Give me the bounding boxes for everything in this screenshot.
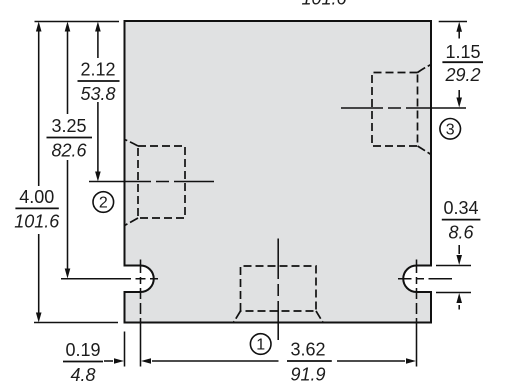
svg-text:4.8: 4.8: [70, 365, 95, 385]
dimension 1.15/29.2 line: [458, 30, 460, 100]
dimension 0.19/4.8 arrow: [104, 360, 113, 362]
dimension 2.12/53.8 line: [97, 30, 99, 173]
extension line right notch bottom: [436, 292, 471, 294]
balloon 1: [250, 334, 271, 355]
left notch vertical centerline and extension to dimension: [140, 260, 142, 367]
cutout 3 horizontal centerline: [341, 107, 466, 109]
svg-text:53.8: 53.8: [80, 84, 115, 104]
svg-text:3.25: 3.25: [51, 116, 86, 136]
cutout 1 vertical centerline: [277, 239, 279, 341]
cutout 1 chamfer dash left: [234, 311, 241, 323]
svg-text:82.6: 82.6: [51, 141, 87, 161]
svg-text:1.15: 1.15: [445, 42, 480, 62]
cutout 2 chamfer dash top: [125, 140, 139, 147]
dimension 0.34/8.6 arrows: [458, 245, 460, 254]
svg-text:91.9: 91.9: [290, 365, 325, 385]
dimension 3.25/82.6 line: [67, 30, 69, 270]
svg-text:2: 2: [99, 195, 108, 212]
svg-text:4.00: 4.00: [19, 187, 54, 207]
right notch horizontal centerline: [398, 278, 452, 280]
extension line top left: [35, 21, 120, 23]
svg-text:101.6: 101.6: [14, 211, 60, 231]
extension line bottom left of plate bottom edge: [34, 322, 118, 324]
hidden cutout 2 (left): [138, 146, 185, 218]
svg-text:8.6: 8.6: [448, 223, 474, 243]
svg-text:29.2: 29.2: [444, 65, 480, 85]
extension line right notch top: [436, 265, 471, 267]
balloon 3: [440, 119, 461, 140]
balloon 2: [93, 192, 114, 213]
cutout 1 chamfer dash right: [316, 311, 323, 323]
svg-text:3.62: 3.62: [290, 340, 325, 360]
plate body with keyhole notches: [125, 21, 432, 323]
extension line top right: [439, 21, 467, 23]
right notch vertical centerline and extension to dimension: [416, 260, 418, 367]
hidden cutout 1 (bottom center): [241, 266, 317, 311]
dimension 4.00/101.6 line: [38, 30, 40, 314]
svg-text:101.6: 101.6: [301, 0, 347, 9]
svg-text:3: 3: [446, 121, 455, 138]
cutout 2 horizontal centerline: [89, 181, 214, 183]
hidden cutout 3 (top right): [372, 73, 418, 147]
cutout 3 chamfer dash bottom: [418, 146, 432, 155]
svg-text:0.34: 0.34: [443, 198, 478, 218]
svg-text:1: 1: [256, 337, 265, 354]
svg-text:2.12: 2.12: [80, 60, 115, 80]
cutout 3 chamfer dash top: [418, 65, 432, 73]
dimension 3.62/91.9 line: [152, 360, 405, 362]
extension line plate left edge below: [124, 332, 126, 367]
svg-text:0.19: 0.19: [65, 340, 100, 360]
left notch horizontal centerline: [61, 278, 158, 280]
cutout 2 chamfer dash bottom: [125, 218, 139, 226]
